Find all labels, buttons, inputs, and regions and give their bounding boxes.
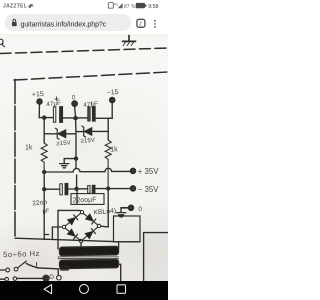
capacitor C3 47uF left xyxy=(53,107,55,122)
svg-text:≥15V: ≥15V xyxy=(56,139,72,147)
node 0 out xyxy=(128,205,133,210)
left border xyxy=(14,80,16,238)
svg-text:0: 0 xyxy=(72,95,76,102)
svg-text:4G: 4G xyxy=(114,2,119,6)
svg-text:22oo: 22oo xyxy=(32,199,48,207)
svg-text:+15: +15 xyxy=(32,91,44,99)
junction cap row left xyxy=(43,188,46,191)
svg-text:+ 35V: + 35V xyxy=(138,167,159,176)
padlock icon xyxy=(12,22,17,26)
back triangle xyxy=(44,285,52,294)
svg-text:5o÷6o Hz: 5o÷6o Hz xyxy=(3,249,40,259)
svg-text:2: 2 xyxy=(139,21,142,27)
wire 0 vertical xyxy=(75,118,77,159)
screenshot icon xyxy=(108,3,113,9)
bottom long line xyxy=(15,238,114,241)
capacitor C2 2200uF right xyxy=(77,188,131,190)
zener D5 15V left xyxy=(44,133,75,135)
resistor R1 1k left xyxy=(41,143,47,172)
tab counter xyxy=(137,19,145,27)
capacitor C1 2200uF left xyxy=(44,188,76,190)
junction dots bus xyxy=(43,116,46,119)
bridge rectifier KBL04 xyxy=(80,211,83,214)
scan shadow right xyxy=(145,234,168,281)
wire primary left xyxy=(38,268,58,276)
recents square xyxy=(117,285,126,294)
transformer core xyxy=(58,257,119,259)
node -35V out xyxy=(130,186,135,191)
svg-text:guitarristas.info/index.php?c: guitarristas.info/index.php?c xyxy=(21,21,107,28)
svg-text:JAZZTEL: JAZZTEL xyxy=(3,4,27,10)
wire bridge plus xyxy=(52,227,62,238)
svg-text:47µF: 47µF xyxy=(83,101,98,110)
wire bridge ac top xyxy=(58,209,80,211)
earth symbol xyxy=(123,36,136,42)
transformer T1 primary winding xyxy=(59,259,118,268)
wire secondary left xyxy=(57,210,59,249)
wire bridge minus xyxy=(101,225,109,228)
status bar xyxy=(0,0,168,11)
switch SW1 pole 2 xyxy=(0,278,5,280)
ground GND1 xyxy=(64,159,76,164)
switch SW1 pole 1 xyxy=(0,269,5,271)
url pill xyxy=(5,14,132,31)
junction 0 cap row xyxy=(75,187,78,190)
menu dots xyxy=(154,20,156,22)
svg-text:µF: µF xyxy=(42,208,50,215)
mute icon xyxy=(29,4,34,8)
node +15 xyxy=(37,99,42,104)
svg-text:22ooµF: 22ooµF xyxy=(72,197,96,205)
label box 2200uF right xyxy=(71,194,104,205)
diode D1 xyxy=(68,215,78,225)
svg-text:87 %: 87 % xyxy=(124,4,136,10)
rail +35 with hops xyxy=(44,168,130,172)
enclosure step right xyxy=(114,233,169,281)
content: scanned schematic xyxy=(0,34,168,281)
wire -15 drop xyxy=(111,102,113,118)
terminal primary 2 xyxy=(50,275,54,279)
node +35V out xyxy=(130,168,135,173)
svg-text:0: 0 xyxy=(138,206,142,213)
svg-text:− 35V: − 35V xyxy=(138,185,159,194)
wire +35 branch down xyxy=(44,172,49,239)
ground GND2 xyxy=(120,208,122,212)
browser url bar xyxy=(0,11,168,34)
wire +15 drop xyxy=(38,104,40,118)
diode D4 xyxy=(85,228,95,238)
bus +15/0/-15 xyxy=(39,117,112,120)
svg-text:KBLo4): KBLo4) xyxy=(93,208,116,217)
android nav bar xyxy=(0,281,168,300)
wire -35 to bridge xyxy=(107,189,109,227)
handwritten labels xyxy=(3,89,159,259)
chassis dashed line top xyxy=(0,48,168,54)
svg-text:≥15V: ≥15V xyxy=(80,137,96,145)
wire primary right xyxy=(118,264,121,281)
wire center tap xyxy=(80,243,82,249)
junction node gnd tap xyxy=(75,157,78,160)
inner dashed line xyxy=(14,72,168,80)
wire 0 drop xyxy=(75,106,76,118)
node -15 xyxy=(110,97,115,102)
diode D3 xyxy=(67,229,77,239)
home circle xyxy=(80,284,89,293)
junction +35 left xyxy=(43,171,46,174)
transformer T1 secondary winding xyxy=(59,246,118,255)
wire secondary right xyxy=(118,242,120,249)
node 0 xyxy=(72,101,77,106)
wire 0 output lead xyxy=(121,207,129,209)
capacitor C4 47uF right xyxy=(88,107,90,121)
battery icon xyxy=(136,3,145,8)
svg-text:9:58: 9:58 xyxy=(148,4,158,10)
resistor R2 1k right xyxy=(105,140,111,189)
wire +15 branch vertical xyxy=(43,118,45,143)
corner squiggle xyxy=(1,39,5,46)
svg-text:1k: 1k xyxy=(110,147,118,154)
enclosure box A xyxy=(114,216,141,242)
svg-text:1k: 1k xyxy=(25,144,33,151)
wire -15 branch vertical xyxy=(108,118,112,140)
terminal primary xyxy=(57,275,62,280)
junction -35 xyxy=(107,187,110,190)
zener D6 15V right xyxy=(76,130,108,132)
wire 0 to center xyxy=(75,159,78,189)
wire 0 lower drop xyxy=(76,189,78,204)
diode D2 xyxy=(86,214,96,224)
svg-text:−15: −15 xyxy=(107,89,119,97)
